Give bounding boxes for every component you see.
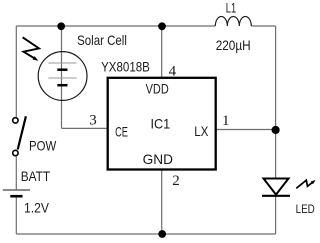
wire left rail upper <box>15 26 17 117</box>
svg-text:L1: L1 <box>226 0 237 15</box>
solar light arrow <box>23 37 39 60</box>
wire VDD pin 4 vertical <box>161 26 163 77</box>
wire left rail switch-to-battery <box>15 157 17 190</box>
switch POW bottom contact <box>13 150 18 155</box>
svg-text:BATT: BATT <box>21 168 51 184</box>
svg-text:1: 1 <box>222 113 230 129</box>
svg-text:POW: POW <box>29 137 57 153</box>
wire top rail left segment <box>16 25 215 27</box>
solar cell circle <box>38 52 87 101</box>
solar cell plate long 1 <box>48 62 76 64</box>
wire right rail upper <box>275 26 277 179</box>
svg-text:CE: CE <box>115 124 128 140</box>
LED triangle <box>264 179 289 195</box>
wire bottom rail <box>16 233 275 235</box>
wire solar-cell branch vertical <box>61 26 63 128</box>
svg-text:GND: GND <box>143 151 173 167</box>
switch POW top contact <box>13 118 18 123</box>
svg-text:3: 3 <box>89 113 97 129</box>
LED cathode bar <box>262 195 290 197</box>
junction dot top at VDD tap <box>158 22 166 30</box>
svg-text:220µH: 220µH <box>216 37 251 53</box>
junction dot top above solar cell <box>57 22 65 30</box>
svg-text:2: 2 <box>172 173 180 189</box>
junction dot right at LX <box>272 126 280 134</box>
svg-text:Solar Cell: Solar Cell <box>77 32 127 48</box>
wire left rail battery-to-bottom <box>15 198 17 235</box>
junction dot bottom at GND <box>158 230 166 238</box>
op IC1 box <box>108 78 216 170</box>
svg-text:IC1: IC1 <box>151 115 171 131</box>
svg-text:LED: LED <box>296 204 315 216</box>
wire CE pin 3 horizontal <box>62 127 107 129</box>
LED light arrow <box>296 180 315 188</box>
battery BATT plate long <box>3 189 30 191</box>
switch POW lever <box>18 116 26 149</box>
battery BATT plate short thick <box>10 195 22 198</box>
wire right rail lower <box>275 196 277 234</box>
solar cell plate long 2 <box>48 77 76 79</box>
svg-text:YX8018B: YX8018B <box>101 58 150 74</box>
solar cell plate thick 2 <box>57 84 67 87</box>
wire LX pin 1 horizontal <box>217 129 276 131</box>
inductor L1 coil <box>215 17 251 27</box>
svg-text:LX: LX <box>194 123 209 139</box>
wire GND pin 2 vertical <box>161 170 163 234</box>
svg-text:VDD: VDD <box>146 81 169 97</box>
svg-text:1.2V: 1.2V <box>24 200 49 216</box>
wire top rail right segment <box>251 25 275 27</box>
svg-text:4: 4 <box>169 64 177 80</box>
solar cell plate thick 1 <box>57 68 67 71</box>
